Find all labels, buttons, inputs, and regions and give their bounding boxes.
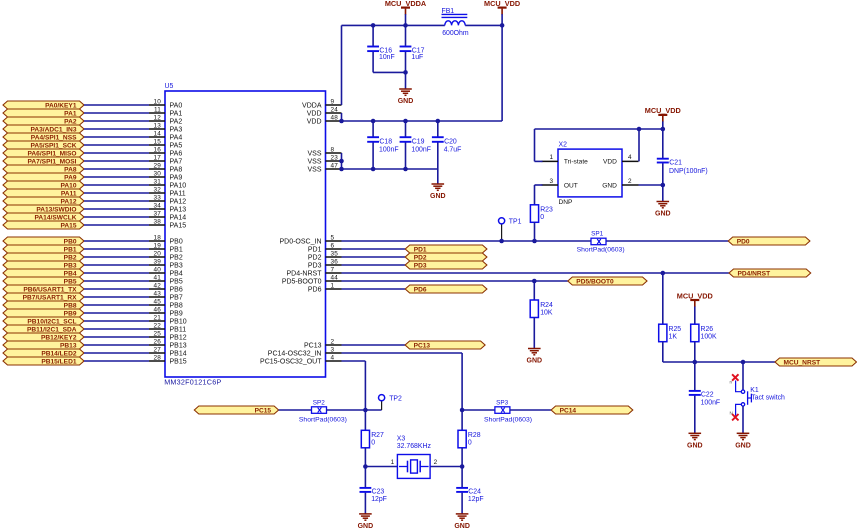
svg-text:PB12/KEY2: PB12/KEY2	[41, 334, 77, 341]
svg-text:46: 46	[153, 306, 161, 313]
svg-text:R26: R26	[701, 326, 714, 333]
svg-text:PB1: PB1	[170, 246, 183, 253]
svg-text:PA0: PA0	[170, 102, 183, 109]
svg-text:X3: X3	[397, 436, 406, 443]
svg-text:PB3: PB3	[64, 262, 77, 269]
svg-text:48: 48	[331, 114, 339, 121]
svg-text:4: 4	[628, 154, 632, 161]
svg-text:PD3: PD3	[414, 262, 427, 269]
svg-text:30: 30	[153, 170, 161, 177]
svg-text:MCU_VDD: MCU_VDD	[645, 106, 681, 115]
svg-text:31: 31	[153, 178, 161, 185]
svg-text:2: 2	[331, 338, 335, 345]
svg-text:PB10/I2C1_SCL: PB10/I2C1_SCL	[27, 318, 76, 325]
svg-text:C19: C19	[412, 138, 425, 145]
svg-text:PD4-NRST: PD4-NRST	[286, 270, 322, 277]
svg-text:PC13: PC13	[414, 342, 431, 349]
svg-text:GND: GND	[358, 523, 374, 530]
svg-text:PA9: PA9	[64, 174, 77, 181]
svg-text:GND: GND	[687, 443, 703, 450]
svg-text:47: 47	[331, 162, 339, 169]
svg-text:X2: X2	[559, 142, 568, 149]
svg-text:29: 29	[153, 162, 161, 169]
svg-text:0: 0	[371, 440, 375, 447]
svg-text:PD1: PD1	[308, 246, 322, 253]
svg-text:PB13: PB13	[170, 342, 187, 349]
svg-text:PB11: PB11	[170, 326, 187, 333]
svg-text:4: 4	[331, 354, 335, 361]
svg-text:0: 0	[468, 440, 472, 447]
svg-text:PA1: PA1	[170, 110, 183, 117]
svg-text:PA10: PA10	[170, 182, 187, 189]
svg-text:100nF: 100nF	[701, 400, 721, 407]
svg-text:C18: C18	[379, 138, 392, 145]
svg-text:R27: R27	[371, 432, 384, 439]
svg-text:12pF: 12pF	[468, 496, 484, 503]
svg-text:PA7/SPI1_MOSI: PA7/SPI1_MOSI	[28, 158, 77, 165]
svg-text:PD5-BOOT0: PD5-BOOT0	[282, 278, 322, 285]
svg-text:OUT: OUT	[564, 182, 578, 189]
svg-text:GND: GND	[655, 211, 671, 218]
svg-text:MCU_VDD: MCU_VDD	[677, 291, 713, 300]
svg-text:R24: R24	[540, 302, 553, 309]
svg-text:21: 21	[153, 314, 161, 321]
svg-text:C22: C22	[701, 391, 714, 398]
svg-text:PB9: PB9	[64, 310, 77, 317]
svg-text:100nF: 100nF	[411, 147, 431, 154]
svg-text:PB7: PB7	[170, 294, 183, 301]
svg-text:26: 26	[153, 338, 161, 345]
svg-text:2: 2	[628, 178, 632, 185]
svg-text:10K: 10K	[540, 309, 553, 316]
svg-text:MCU_NRST: MCU_NRST	[784, 359, 821, 366]
svg-text:PD1: PD1	[414, 246, 427, 253]
svg-text:12pF: 12pF	[371, 496, 387, 503]
svg-text:PD4/NRST: PD4/NRST	[738, 270, 771, 277]
svg-text:10: 10	[153, 98, 161, 105]
svg-text:PD2: PD2	[308, 254, 322, 261]
svg-text:32: 32	[153, 186, 161, 193]
svg-text:PB0: PB0	[170, 238, 183, 245]
svg-text:16: 16	[153, 146, 161, 153]
svg-text:PA3: PA3	[170, 126, 183, 133]
svg-text:PC14: PC14	[560, 407, 577, 414]
svg-text:PA15: PA15	[170, 222, 187, 229]
svg-text:ShortPad(0603): ShortPad(0603)	[484, 416, 532, 423]
svg-text:23: 23	[331, 154, 339, 161]
svg-text:FB1: FB1	[442, 8, 455, 15]
svg-text:37: 37	[153, 210, 161, 217]
svg-text:PD0-OSC_IN: PD0-OSC_IN	[279, 238, 321, 245]
svg-text:5: 5	[331, 234, 335, 241]
svg-text:PA11: PA11	[61, 190, 77, 197]
svg-text:PB15: PB15	[170, 358, 187, 365]
svg-text:VSS: VSS	[307, 158, 321, 165]
svg-text:1: 1	[331, 282, 335, 289]
svg-text:PB12: PB12	[170, 334, 187, 341]
svg-text:PB11/I2C1_SDA: PB11/I2C1_SDA	[27, 326, 77, 333]
svg-text:MCU_VDDA: MCU_VDDA	[385, 0, 427, 8]
svg-text:PD5/BOOT0: PD5/BOOT0	[576, 278, 614, 285]
svg-text:PC14-OSC32_IN: PC14-OSC32_IN	[268, 350, 322, 357]
svg-text:GND: GND	[735, 443, 751, 450]
svg-text:14: 14	[153, 130, 161, 137]
svg-text:GND: GND	[430, 193, 446, 200]
svg-text:PB5: PB5	[64, 278, 77, 285]
svg-text:C23: C23	[372, 488, 385, 495]
svg-text:VDDA: VDDA	[302, 102, 322, 109]
svg-text:8: 8	[331, 146, 335, 153]
svg-text:TP1: TP1	[509, 218, 522, 225]
svg-text:PC13: PC13	[304, 342, 322, 349]
svg-text:24: 24	[331, 106, 339, 113]
svg-text:22: 22	[153, 322, 161, 329]
svg-text:PA13: PA13	[170, 206, 187, 213]
svg-text:13: 13	[153, 122, 161, 129]
svg-text:VDD: VDD	[307, 110, 322, 117]
svg-text:ShortPad(0603): ShortPad(0603)	[299, 416, 347, 423]
svg-text:11: 11	[154, 106, 161, 113]
svg-text:PD6: PD6	[414, 286, 427, 293]
svg-text:PB4: PB4	[64, 270, 77, 277]
svg-text:1uF: 1uF	[411, 54, 423, 61]
svg-text:38: 38	[153, 218, 161, 225]
svg-text:VDD: VDD	[603, 159, 617, 166]
svg-text:PA15: PA15	[60, 222, 76, 229]
svg-text:GND: GND	[398, 98, 414, 105]
svg-text:R25: R25	[669, 326, 682, 333]
svg-text:PA11: PA11	[170, 190, 186, 197]
svg-text:28: 28	[153, 354, 161, 361]
svg-text:MM32F0121C6P: MM32F0121C6P	[164, 378, 221, 387]
svg-text:PA9: PA9	[170, 174, 183, 181]
svg-text:45: 45	[153, 298, 161, 305]
svg-text:Tact switch: Tact switch	[751, 394, 785, 401]
svg-text:2: 2	[434, 459, 438, 466]
svg-text:17: 17	[153, 154, 161, 161]
svg-text:R28: R28	[468, 432, 481, 439]
svg-text:DNP: DNP	[559, 199, 574, 206]
svg-text:43: 43	[153, 290, 161, 297]
svg-text:32.768KHz: 32.768KHz	[397, 443, 432, 450]
svg-text:6: 6	[331, 242, 335, 249]
svg-text:1K: 1K	[669, 334, 678, 341]
svg-text:PC15: PC15	[255, 407, 272, 414]
svg-text:10nF: 10nF	[379, 54, 395, 61]
svg-text:25: 25	[153, 330, 161, 337]
svg-text:PB14: PB14	[170, 350, 187, 357]
svg-text:C21: C21	[669, 159, 682, 166]
svg-text:19: 19	[153, 242, 161, 249]
svg-text:18: 18	[153, 234, 161, 241]
svg-text:PD3: PD3	[308, 262, 322, 269]
svg-text:K1: K1	[750, 387, 759, 394]
svg-text:PB8: PB8	[64, 302, 77, 309]
svg-text:0: 0	[540, 214, 544, 221]
svg-text:39: 39	[153, 258, 161, 265]
svg-text:PA12: PA12	[60, 198, 76, 205]
svg-text:100nF: 100nF	[379, 147, 399, 154]
svg-text:41: 41	[153, 274, 161, 281]
svg-text:VSS: VSS	[307, 166, 321, 173]
svg-text:PD6: PD6	[308, 286, 322, 293]
svg-text:PB2: PB2	[64, 254, 77, 261]
svg-text:PB13: PB13	[60, 342, 77, 349]
svg-text:DNP(100nF): DNP(100nF)	[669, 168, 708, 175]
svg-text:PA4/SPI1_NSS: PA4/SPI1_NSS	[31, 134, 77, 141]
svg-text:PA5: PA5	[170, 142, 183, 149]
svg-text:36: 36	[331, 258, 339, 265]
svg-text:PA3/ADC1_IN3: PA3/ADC1_IN3	[30, 126, 76, 133]
svg-text:44: 44	[331, 274, 339, 281]
svg-text:Tri-state: Tri-state	[564, 159, 588, 166]
svg-text:N: N	[730, 411, 733, 416]
svg-text:PA8: PA8	[64, 166, 77, 173]
svg-text:MCU_VDD: MCU_VDD	[484, 0, 520, 8]
svg-text:PB3: PB3	[170, 262, 183, 269]
svg-text:PA14/SWCLK: PA14/SWCLK	[34, 214, 76, 221]
svg-text:PA12: PA12	[170, 198, 187, 205]
svg-text:42: 42	[153, 282, 161, 289]
svg-text:40: 40	[153, 266, 161, 273]
svg-text:PA0/KEY1: PA0/KEY1	[45, 102, 77, 109]
svg-text:1: 1	[549, 154, 553, 161]
svg-text:PA8: PA8	[170, 166, 183, 173]
svg-text:ShortPad(0603): ShortPad(0603)	[577, 246, 625, 253]
svg-text:PB6/USART1_TX: PB6/USART1_TX	[23, 286, 77, 293]
svg-text:PA10: PA10	[60, 182, 76, 189]
svg-text:3: 3	[549, 178, 553, 185]
svg-text:PA1: PA1	[64, 110, 77, 117]
svg-text:TP2: TP2	[389, 395, 402, 402]
svg-text:C24: C24	[468, 488, 481, 495]
svg-text:PC15-OSC32_OUT: PC15-OSC32_OUT	[260, 358, 322, 365]
svg-text:PA2: PA2	[170, 118, 183, 125]
svg-text:4.7uF: 4.7uF	[444, 147, 462, 154]
svg-text:PB14/LED2: PB14/LED2	[41, 350, 77, 357]
svg-text:PA6: PA6	[170, 150, 183, 157]
svg-text:PA5/SPI1_SCK: PA5/SPI1_SCK	[30, 142, 76, 149]
svg-text:VDD: VDD	[307, 118, 322, 125]
svg-text:20: 20	[153, 250, 161, 257]
svg-text:PB9: PB9	[170, 310, 183, 317]
svg-text:PA4: PA4	[170, 134, 183, 141]
svg-text:PB8: PB8	[170, 302, 183, 309]
svg-text:7: 7	[331, 266, 335, 273]
svg-text:35: 35	[331, 250, 339, 257]
svg-text:3: 3	[331, 346, 335, 353]
svg-text:PB15/LED1: PB15/LED1	[41, 358, 77, 365]
svg-text:PB4: PB4	[170, 270, 183, 277]
svg-text:GND: GND	[527, 358, 543, 365]
svg-text:SP3: SP3	[496, 399, 509, 406]
svg-text:VSS: VSS	[307, 150, 321, 157]
svg-text:15: 15	[153, 138, 161, 145]
svg-text:100K: 100K	[701, 334, 717, 341]
svg-text:PD2: PD2	[414, 254, 427, 261]
svg-text:PB2: PB2	[170, 254, 183, 261]
svg-text:27: 27	[153, 346, 161, 353]
svg-text:SP1: SP1	[591, 231, 604, 238]
svg-text:PB5: PB5	[170, 278, 183, 285]
svg-text:C20: C20	[444, 138, 457, 145]
svg-text:PA6/SPI1_MISO: PA6/SPI1_MISO	[28, 150, 77, 157]
svg-text:GND: GND	[454, 523, 470, 530]
svg-text:PD0: PD0	[737, 238, 750, 245]
svg-text:U5: U5	[165, 83, 174, 90]
svg-text:PA14: PA14	[170, 214, 187, 221]
svg-text:PB1: PB1	[64, 246, 77, 253]
svg-text:PA7: PA7	[170, 158, 183, 165]
svg-text:34: 34	[153, 202, 161, 209]
svg-text:R23: R23	[540, 207, 553, 214]
svg-text:12: 12	[153, 114, 161, 121]
svg-text:PB0: PB0	[64, 238, 77, 245]
svg-text:PB10: PB10	[170, 318, 187, 325]
svg-text:GND: GND	[602, 182, 617, 189]
svg-text:600Ohm: 600Ohm	[442, 30, 469, 37]
svg-text:PB7/USART1_RX: PB7/USART1_RX	[23, 294, 77, 301]
svg-text:1: 1	[391, 459, 395, 466]
svg-text:PA13/SWDIO: PA13/SWDIO	[36, 206, 76, 213]
svg-text:SP2: SP2	[313, 399, 326, 406]
svg-text:33: 33	[153, 194, 161, 201]
svg-text:PA2: PA2	[64, 118, 77, 125]
svg-text:9: 9	[331, 98, 335, 105]
svg-text:PB6: PB6	[170, 286, 183, 293]
